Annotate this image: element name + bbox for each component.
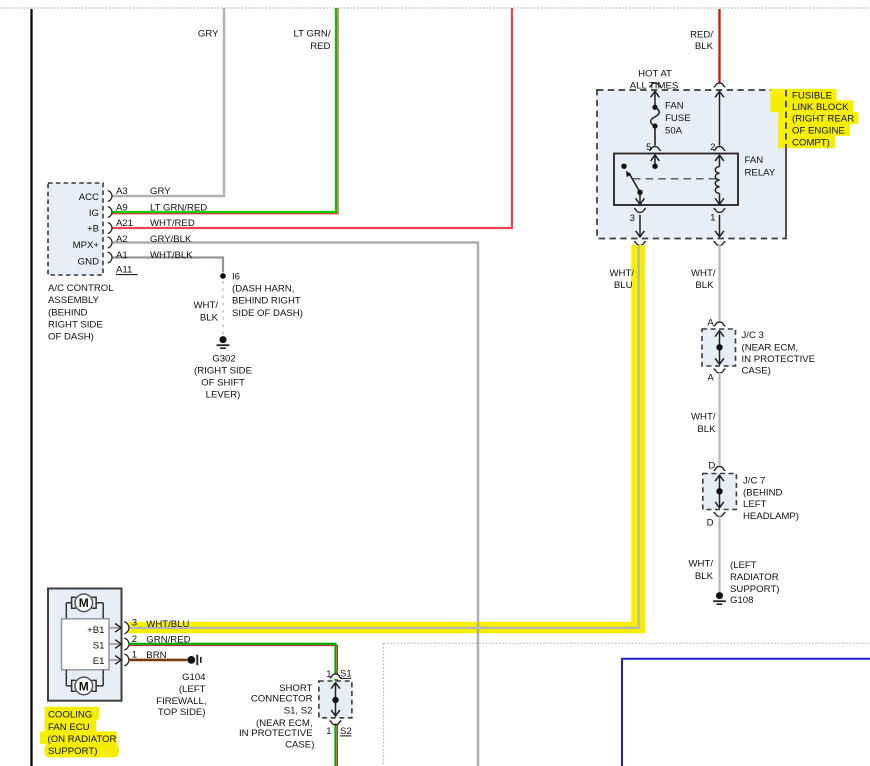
svg-text:GRY: GRY bbox=[198, 29, 219, 40]
pin number 1 bbox=[710, 212, 715, 223]
svg-text:(BEHIND: (BEHIND bbox=[743, 487, 783, 498]
connector arc (J/C 3 bottom) bbox=[714, 369, 726, 373]
connector arc (J/C 7 bottom) bbox=[714, 512, 726, 516]
svg-text:FUSIBLE: FUSIBLE bbox=[792, 90, 832, 101]
relay switch fixed contact bbox=[621, 164, 626, 169]
pin MPX+ bbox=[73, 237, 112, 251]
svg-text:50A: 50A bbox=[665, 126, 683, 137]
svg-text:A3: A3 bbox=[116, 186, 128, 197]
boundary: lower-right section corner bbox=[384, 643, 870, 766]
connector arc (block bottom left) bbox=[634, 241, 646, 245]
svg-text:+B: +B bbox=[87, 224, 99, 235]
ground G104 (sideways) bbox=[187, 655, 200, 666]
svg-text:(BEHIND: (BEHIND bbox=[48, 308, 88, 319]
junction connector J/C 3 box bbox=[702, 329, 736, 366]
svg-text:WHT/BLU: WHT/BLU bbox=[146, 619, 189, 630]
node A (bottom) bbox=[707, 372, 714, 383]
wire WHT/RED (A21 to top) bbox=[112, 8, 512, 228]
pin number A21 bbox=[116, 218, 133, 229]
svg-text:MPX+: MPX+ bbox=[73, 240, 100, 251]
node A (top) bbox=[707, 317, 714, 328]
connector arc (hot feed into block) bbox=[649, 83, 661, 87]
pin GND bbox=[78, 252, 112, 268]
svg-text:A21: A21 bbox=[116, 218, 133, 229]
J/C 3 internal bbox=[715, 331, 724, 365]
exit line pin 1 bbox=[715, 215, 724, 237]
label FAN FUSE 50A bbox=[665, 101, 691, 137]
svg-text:(LEFT: (LEFT bbox=[730, 560, 757, 571]
label WHT/BLK (mid) bbox=[691, 412, 716, 436]
svg-text:A9: A9 bbox=[116, 203, 128, 214]
label LT GRN/RED bbox=[150, 203, 207, 214]
svg-text:2: 2 bbox=[710, 142, 715, 153]
svg-text:ASSEMBLY: ASSEMBLY bbox=[48, 295, 100, 306]
svg-text:IN PROTECTIVE: IN PROTECTIVE bbox=[239, 728, 313, 739]
pin number A1 bbox=[116, 250, 128, 261]
svg-text:HEADLAMP): HEADLAMP) bbox=[743, 511, 799, 522]
svg-text:BLK: BLK bbox=[695, 41, 714, 52]
wire GRN/RED red stripe bbox=[129, 646, 338, 766]
wire LT GRN/RED (A9 to top) red stripe bbox=[112, 8, 338, 214]
entry arrow (hot feed) bbox=[651, 91, 660, 105]
fan relay box bbox=[614, 154, 738, 206]
wire WHT/BLK (A1 to I6) bbox=[112, 258, 223, 273]
motor M2 (bottom) bbox=[66, 670, 103, 695]
wire BRN (ECU E1 to G104) bbox=[129, 659, 188, 662]
connector arc (RED/BLK into block) bbox=[714, 83, 726, 87]
svg-text:G108: G108 bbox=[730, 595, 753, 606]
caption G302 location bbox=[194, 366, 252, 401]
connector arc (J/C 3 top) bbox=[714, 322, 726, 326]
svg-text:(ON RADIATOR: (ON RADIATOR bbox=[48, 734, 117, 745]
wire WHT/BLK (J/C 3 to J/C 7) bbox=[718, 373, 720, 466]
svg-text:COOLING: COOLING bbox=[48, 710, 92, 721]
pin number 2 bbox=[710, 142, 715, 153]
caption A/C control assembly bbox=[48, 283, 114, 343]
highlighted note FUSIBLE LINK BLOCK bbox=[771, 89, 859, 149]
svg-text:LEFT: LEFT bbox=[743, 499, 767, 510]
pin number 5 bbox=[646, 142, 651, 153]
motor M1 (top) bbox=[66, 594, 103, 619]
svg-text:RIGHT SIDE: RIGHT SIDE bbox=[48, 320, 103, 331]
wire WHT/BLU (relay pin 3 to ECU +B1) bbox=[129, 245, 639, 628]
label HOT AT ALL TIMES bbox=[630, 69, 679, 92]
pin number 1 (ECU) bbox=[132, 650, 137, 661]
pin E1 bbox=[93, 654, 129, 667]
label WHT/BLK (I6 to G302) bbox=[193, 300, 218, 324]
wire WHT/BLK dashed (I6 to G302) bbox=[222, 281, 224, 336]
relay pin 3 internal bbox=[636, 192, 645, 204]
pin +B bbox=[87, 223, 112, 235]
svg-text:J/C 7: J/C 7 bbox=[743, 475, 765, 486]
svg-text:BLK: BLK bbox=[695, 280, 714, 291]
svg-text:SUPPORT): SUPPORT) bbox=[48, 746, 97, 757]
svg-text:TOP SIDE): TOP SIDE) bbox=[158, 707, 206, 718]
svg-text:BLK: BLK bbox=[695, 571, 714, 582]
svg-text:(DASH HARN,: (DASH HARN, bbox=[232, 284, 294, 295]
exit line pin 3 bbox=[636, 215, 645, 237]
label GRY/BLK bbox=[150, 234, 192, 245]
svg-text:IG: IG bbox=[89, 208, 99, 219]
svg-text:WHT/: WHT/ bbox=[609, 268, 634, 279]
wire GRN/RED (ECU S1 to short connector) bbox=[129, 644, 336, 766]
svg-text:E1: E1 bbox=[93, 656, 105, 667]
svg-text:A: A bbox=[707, 372, 714, 383]
svg-text:D: D bbox=[707, 517, 714, 528]
pin number A9 bbox=[116, 203, 128, 214]
ground G108 bbox=[713, 592, 726, 604]
pin number 3 (ECU) bbox=[132, 618, 137, 629]
pin +B1 bbox=[87, 622, 129, 636]
svg-text:CONNECTOR: CONNECTOR bbox=[251, 693, 313, 704]
label FAN RELAY bbox=[745, 155, 776, 179]
pin 1 label (S1) bbox=[326, 669, 331, 680]
svg-text:M: M bbox=[79, 679, 89, 693]
node D (top) bbox=[708, 460, 715, 471]
svg-text:HOT AT: HOT AT bbox=[638, 69, 672, 80]
relay switch pivot bbox=[637, 190, 642, 195]
svg-text:IN PROTECTIVE: IN PROTECTIVE bbox=[742, 354, 816, 365]
svg-text:G104: G104 bbox=[182, 672, 206, 683]
svg-text:J/C 3: J/C 3 bbox=[742, 330, 764, 341]
svg-text:FAN: FAN bbox=[665, 101, 684, 112]
svg-text:RELAY: RELAY bbox=[745, 167, 776, 178]
svg-text:OF DASH): OF DASH) bbox=[48, 332, 94, 343]
short connector internal bbox=[331, 683, 340, 716]
relay pin 5 internal bbox=[651, 155, 660, 169]
svg-text:A/C CONTROL: A/C CONTROL bbox=[48, 283, 114, 294]
svg-text:A1: A1 bbox=[116, 250, 128, 261]
svg-text:S1, S2: S1, S2 bbox=[284, 706, 313, 717]
relay switch arm bbox=[626, 171, 640, 193]
svg-text:LINK BLOCK: LINK BLOCK bbox=[792, 102, 849, 113]
svg-text:3: 3 bbox=[630, 213, 635, 224]
connector arc (block bottom right) bbox=[714, 241, 726, 245]
svg-text:5: 5 bbox=[646, 142, 651, 153]
svg-text:+B1: +B1 bbox=[87, 625, 104, 636]
svg-text:3: 3 bbox=[132, 618, 137, 629]
svg-text:BLK: BLK bbox=[200, 313, 219, 324]
svg-text:(LEFT: (LEFT bbox=[179, 684, 206, 695]
splice I6 bbox=[220, 273, 226, 279]
label WHT/BLK bbox=[150, 250, 193, 261]
svg-text:SIDE OF DASH): SIDE OF DASH) bbox=[232, 308, 303, 319]
svg-text:BLK: BLK bbox=[697, 424, 716, 435]
pin number 2 (ECU) bbox=[132, 634, 137, 645]
highlighted caption COOLING FAN ECU bbox=[40, 707, 119, 758]
pin number A2 bbox=[116, 234, 128, 245]
connector arc (pin 2) bbox=[714, 147, 726, 151]
wire GRY/BLK crossing segment (over highlight) bbox=[477, 621, 479, 634]
fusible link block right border (over highlight) bbox=[785, 90, 787, 239]
svg-text:COMPT): COMPT) bbox=[792, 137, 830, 148]
svg-text:WHT/: WHT/ bbox=[691, 412, 716, 423]
wire GRY (A3 to top) bbox=[112, 8, 224, 196]
boundary: left frame line bbox=[30, 9, 32, 766]
entry arrow (RED/BLK) bbox=[715, 91, 724, 145]
svg-text:S2: S2 bbox=[340, 726, 352, 737]
connector arc (S2 bottom) bbox=[330, 721, 342, 725]
label WHT/BLU (below relay) bbox=[609, 268, 634, 291]
label I6 bbox=[232, 272, 240, 283]
svg-text:WHT/: WHT/ bbox=[688, 559, 713, 570]
label GRY (top) bbox=[198, 29, 219, 40]
caption J/C 3 bbox=[742, 330, 816, 377]
connector arc (pin 5) bbox=[649, 147, 661, 151]
pin number A3 bbox=[116, 186, 128, 197]
fusible link block box bbox=[597, 90, 786, 239]
highlight WHT/BLU wire (yellow) bbox=[129, 245, 646, 633]
ECU logic box bbox=[62, 619, 110, 670]
caption J/C 7 bbox=[743, 475, 799, 522]
pin S1 bbox=[93, 638, 129, 652]
A/C control assembly box bbox=[48, 183, 103, 275]
pin 1 label (S2) bbox=[326, 726, 331, 737]
label WHT/BLK (bottom) bbox=[688, 559, 713, 583]
wire WHT/BLK (J/C 7 to G108) bbox=[718, 516, 720, 593]
svg-text:(RIGHT SIDE: (RIGHT SIDE bbox=[194, 366, 252, 377]
wire GRY/BLK (A2 to bottom) bbox=[112, 243, 478, 766]
svg-text:LT GRN/RED: LT GRN/RED bbox=[150, 203, 207, 214]
svg-text:WHT/BLK: WHT/BLK bbox=[150, 250, 193, 261]
label GRY bbox=[150, 186, 171, 197]
node D (bottom) bbox=[707, 517, 714, 528]
ground G302 bbox=[217, 336, 230, 348]
svg-text:1: 1 bbox=[326, 726, 331, 737]
svg-text:RED: RED bbox=[310, 41, 330, 52]
svg-text:SUPPORT): SUPPORT) bbox=[730, 584, 779, 595]
wire LT GRN/RED (A9 to top) green bbox=[112, 8, 336, 212]
short connector S1 S2 box bbox=[319, 681, 352, 718]
svg-text:GND: GND bbox=[78, 257, 99, 268]
svg-text:1: 1 bbox=[710, 212, 715, 223]
label RED/BLK bbox=[690, 30, 714, 53]
caption short connector bbox=[239, 683, 314, 751]
connector S1 label (underlined) bbox=[340, 669, 352, 680]
svg-text:FUSE: FUSE bbox=[665, 113, 691, 124]
caption I6 location bbox=[232, 284, 303, 320]
caption G108 location bbox=[730, 560, 779, 606]
relay coil bbox=[715, 155, 724, 204]
cooling fan ECU box bbox=[48, 589, 122, 701]
connector arc (relay pin 3 bottom) bbox=[634, 208, 646, 212]
svg-text:BLU: BLU bbox=[614, 280, 633, 291]
wire RED/BLK (top to fusible link block) bbox=[718, 9, 720, 84]
caption G104 location bbox=[156, 672, 206, 718]
svg-text:LEVER): LEVER) bbox=[206, 389, 241, 400]
svg-text:WHT/: WHT/ bbox=[691, 268, 716, 279]
label G302 bbox=[212, 354, 235, 365]
svg-text:S1: S1 bbox=[340, 669, 352, 680]
svg-text:FAN: FAN bbox=[745, 155, 764, 166]
svg-text:FAN ECU: FAN ECU bbox=[48, 722, 90, 733]
pin ACC bbox=[79, 191, 112, 204]
svg-text:M: M bbox=[79, 596, 89, 610]
wire WHT/BLK (relay pin 1 to J/C 3) bbox=[718, 245, 720, 322]
svg-text:OF ENGINE: OF ENGINE bbox=[792, 125, 845, 136]
label WHT/RED bbox=[150, 218, 195, 229]
connector S2 label (underlined) bbox=[340, 726, 352, 737]
svg-text:CASE): CASE) bbox=[742, 365, 771, 376]
svg-text:WHT/: WHT/ bbox=[193, 300, 218, 311]
relay actuation dashed link bbox=[633, 178, 717, 180]
label LT GRN/RED (top) bbox=[294, 29, 331, 52]
next-diagram blue box (bottom right) bbox=[622, 659, 870, 766]
svg-text:I6: I6 bbox=[232, 272, 240, 283]
svg-text:RADIATOR: RADIATOR bbox=[730, 572, 779, 583]
svg-text:LT GRN/: LT GRN/ bbox=[294, 29, 331, 40]
svg-text:CASE): CASE) bbox=[285, 740, 314, 751]
svg-text:A2: A2 bbox=[116, 234, 128, 245]
svg-text:A11: A11 bbox=[116, 265, 132, 276]
svg-text:WHT/RED: WHT/RED bbox=[150, 218, 195, 229]
fuse F fan fuse 50A bbox=[651, 105, 660, 146]
label WHT/BLK (below relay) bbox=[691, 268, 716, 291]
svg-text:GRY: GRY bbox=[150, 186, 171, 197]
boundary: top page continuation line bbox=[0, 7, 870, 9]
svg-text:A: A bbox=[707, 317, 714, 328]
connector arc (J/C 7 top) bbox=[714, 467, 726, 471]
label BRN (ECU) bbox=[146, 650, 166, 661]
junction connector J/C 7 box bbox=[703, 474, 737, 510]
svg-text:(RIGHT REAR: (RIGHT REAR bbox=[792, 114, 854, 125]
svg-text:BEHIND RIGHT: BEHIND RIGHT bbox=[232, 296, 301, 307]
pin IG bbox=[89, 207, 112, 220]
pin number 3 bbox=[630, 213, 635, 224]
svg-text:FIREWALL,: FIREWALL, bbox=[156, 696, 206, 707]
svg-text:GRY/BLK: GRY/BLK bbox=[150, 234, 192, 245]
label GRN/RED (ECU) bbox=[146, 634, 190, 645]
svg-text:OF SHIFT: OF SHIFT bbox=[201, 377, 245, 388]
connector arc (S1 top) bbox=[330, 674, 342, 678]
label WHT/BLU (ECU) bbox=[146, 619, 189, 630]
svg-text:S1: S1 bbox=[93, 641, 105, 652]
svg-text:(NEAR ECM,: (NEAR ECM, bbox=[742, 342, 799, 353]
svg-text:RED/: RED/ bbox=[690, 30, 713, 41]
svg-text:ACC: ACC bbox=[79, 192, 99, 203]
connector arc (relay pin 1 bottom) bbox=[714, 208, 726, 212]
svg-text:G302: G302 bbox=[212, 354, 235, 365]
J/C 7 internal bbox=[715, 475, 724, 508]
pin number A11 (underlined) bbox=[116, 265, 138, 276]
